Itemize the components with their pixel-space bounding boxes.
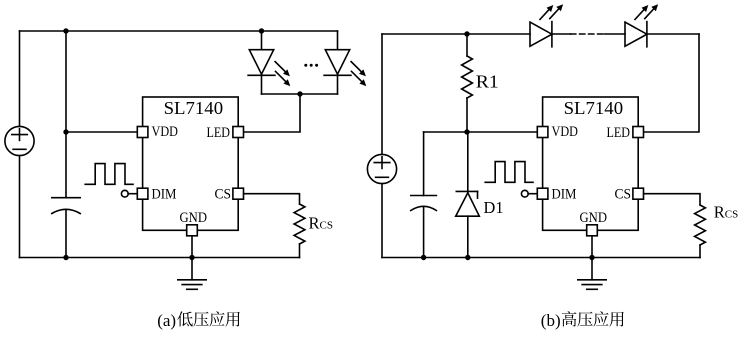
junction node VDD (a) (63, 129, 68, 134)
wire CS to Rcs (b) (644, 194, 701, 205)
voltage source V1 (a) (5, 126, 34, 155)
junction node D1 anode (b) (465, 255, 470, 260)
wire VDD column (a) (65, 31, 67, 198)
wire LED cathode rail (a) (262, 93, 338, 95)
junction node ground (b) (589, 255, 594, 260)
svg-text:GND: GND (180, 210, 208, 226)
svg-text:DIM: DIM (152, 186, 177, 202)
LED D1 (a) (261, 31, 263, 50)
wire LED D3 to dashes (b) (552, 33, 571, 35)
svg-text:(a): (a) (157, 311, 176, 330)
resistor R1 (b) (466, 34, 468, 56)
svg-text:R: R (309, 214, 320, 233)
capacitor C1 (a) (65, 197, 67, 199)
ellipsis dots between LEDs (a) (304, 64, 307, 67)
svg-text:CS: CS (320, 220, 333, 232)
wire DIM terminal to pin (b) (528, 193, 537, 195)
wire LED return to LED pin (a) (244, 94, 301, 132)
DIM input terminal circle (b) (521, 190, 528, 197)
resistor Rcs (b) (695, 205, 706, 245)
pin LED square (b) (633, 127, 644, 138)
pin GND square (a) (187, 225, 198, 236)
junction node R1 top (b) (464, 31, 469, 36)
LED D2 (a) (337, 31, 339, 50)
IC U2 SL7140 (b) (543, 97, 639, 230)
junction node cap bottom (a) (63, 255, 68, 260)
LED D2 arrows (a) (351, 62, 361, 72)
svg-text:D1: D1 (484, 198, 504, 217)
zener diode D1 (b) (467, 132, 469, 192)
wire VDD line (b) (424, 131, 538, 133)
svg-text:VDD: VDD (152, 124, 179, 140)
wire top rail (a) (20, 30, 338, 32)
wire top rail left (b) (382, 33, 530, 35)
resistor Rcs (a) (294, 204, 305, 244)
dashed wire between LEDs (b) (571, 33, 605, 35)
wire bottom rail (b) (382, 257, 700, 259)
svg-text:LED: LED (607, 125, 631, 141)
pin CS square (b) (633, 188, 644, 199)
ground symbol (b) (578, 279, 606, 281)
wire Rcs to bottom rail (a) (299, 244, 301, 258)
svg-text:DIM: DIM (552, 186, 577, 202)
svg-text:CS: CS (615, 186, 632, 202)
svg-text:R: R (714, 202, 725, 221)
voltage source V2 (b) (367, 154, 396, 183)
LED D4 (b) (625, 22, 647, 46)
wire V1 top to top rail (a) (19, 31, 21, 126)
wire bottom rail (a) (20, 257, 300, 259)
wire V1 bottom to bottom rail (a) (19, 156, 21, 258)
wire DIM terminal to pin (a) (128, 193, 137, 195)
svg-text:CS: CS (725, 208, 738, 220)
svg-text:R1: R1 (476, 71, 499, 91)
pin DIM square (a) (137, 188, 148, 199)
pin DIM square (b) (537, 188, 548, 199)
junction node VDD (b) (464, 129, 469, 134)
LED D4 arrows (b) (635, 10, 644, 19)
LED D3 arrows (b) (540, 10, 549, 19)
LED D3 (b) (530, 22, 552, 46)
PWM waveform symbol (a) (85, 164, 133, 185)
svg-text:SL7140: SL7140 (164, 98, 224, 118)
svg-text:LED: LED (207, 125, 231, 141)
wire GND pin to ground (a) (191, 236, 193, 280)
wire Rcs to bottom rail (b) (699, 245, 701, 258)
IC U1 SL7140 (a) (143, 97, 239, 230)
capacitor C2 (b) (423, 132, 425, 196)
wire dashes to LED D4 (b) (605, 33, 626, 35)
pin VDD square (a) (137, 127, 148, 138)
LED D1 arrows (a) (275, 62, 285, 72)
svg-text:SL7140: SL7140 (564, 98, 624, 118)
svg-text:GND: GND (580, 210, 608, 226)
junction node ground (a) (189, 255, 194, 260)
svg-text:VDD: VDD (552, 124, 579, 140)
PWM waveform symbol (b) (485, 162, 533, 183)
svg-text:CS: CS (215, 186, 232, 202)
wire LED return right (b) (644, 34, 700, 132)
wire top rail right (b) (647, 33, 699, 35)
wire V2 bottom to bottom rail (b) (381, 184, 383, 258)
junction node cap bottom (b) (421, 255, 426, 260)
junction node LED return (a) (297, 91, 302, 96)
junction node LED1 anode (a) (259, 28, 264, 33)
wire V2 top to top rail (b) (381, 34, 383, 154)
ground symbol (a) (178, 279, 206, 281)
pin VDD square (b) (537, 127, 548, 138)
junction node cap/VDD column top (a) (63, 28, 68, 33)
pin CS square (a) (233, 188, 244, 199)
wire CS to Rcs (a) (244, 194, 300, 204)
wire VDD feed (a) (66, 131, 138, 133)
pin GND square (b) (587, 225, 598, 236)
pin LED square (a) (233, 127, 244, 138)
wire GND pin to ground (b) (591, 236, 593, 280)
svg-text:(b): (b) (541, 311, 561, 330)
DIM input terminal circle (a) (121, 190, 128, 197)
